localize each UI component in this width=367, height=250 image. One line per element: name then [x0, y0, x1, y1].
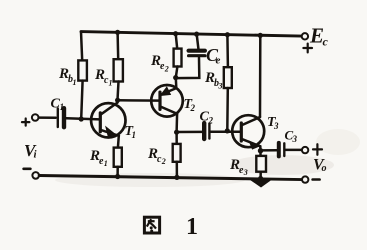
wire Re3 top lead [259, 151, 262, 156]
svg-text:2: 2 [190, 103, 196, 113]
svg-text:2: 2 [208, 116, 214, 126]
node rail junction at Rc1 [115, 30, 120, 35]
node Rb1/base junction [79, 116, 84, 121]
wire top supply rail [81, 32, 302, 36]
label T2 [184, 97, 196, 113]
wire left rail drop to Rb1 [81, 32, 82, 61]
wire T3 collector riser [259, 35, 262, 117]
wire node to C3 [261, 149, 277, 152]
node Rb3/T3 base junction [225, 128, 230, 133]
wire Re1 bottom lead [116, 167, 119, 177]
svg-text:1: 1 [73, 78, 77, 87]
wire Ce bottom L lead [176, 58, 199, 78]
resistor Rc1 [114, 59, 123, 81]
input plus sign [22, 119, 29, 126]
wire Rc1 top lead [116, 32, 119, 59]
svg-text:o: o [322, 163, 327, 174]
wire Rc2 bottom lead [176, 162, 179, 178]
node Rc2 bottom junction [174, 175, 179, 180]
wire Rc1 bottom lead [118, 82, 119, 100]
svg-text:1: 1 [104, 159, 108, 168]
transistor T2 [151, 85, 183, 117]
capacitor C2 [204, 123, 209, 139]
label C2 [200, 110, 214, 126]
label C3 [285, 128, 298, 145]
svg-text:3: 3 [243, 168, 248, 177]
node T2 collector/C2/Rc2 junction [174, 130, 179, 135]
wire Rb3 bottom lead [226, 88, 229, 131]
wire C1 to T1 base [66, 118, 100, 119]
node ground junction [258, 176, 263, 181]
terminal input plus [32, 114, 39, 121]
label Vi [24, 141, 38, 161]
ground symbol [252, 181, 269, 187]
wire input to C1 [39, 116, 56, 119]
caption figure glyph tu [144, 217, 159, 233]
resistor Rb3 [224, 67, 232, 88]
wire C3 to output [286, 149, 302, 152]
label Rb1 [58, 66, 77, 87]
label Ec [309, 24, 329, 49]
node T1 collector junction [115, 98, 120, 103]
svg-text:e: e [216, 55, 221, 67]
wire Rb3 top lead [226, 35, 229, 67]
wire bottom rail [39, 176, 302, 180]
node Re2/Ce/T2 emitter junction [173, 75, 178, 80]
label Re2 [150, 53, 169, 74]
svg-text:i: i [34, 149, 38, 161]
svg-text:1: 1 [60, 102, 65, 112]
capacitor C3 [279, 143, 285, 157]
resistor Re1 [114, 148, 122, 167]
label T3 [267, 115, 279, 131]
Ec plus sign [303, 44, 312, 53]
wire T1 collector to T2 base [118, 99, 160, 102]
node Re1 bottom junction [115, 174, 120, 179]
wire Rb1 bottom to base node [81, 81, 82, 119]
background smudges (decorative) [55, 129, 360, 187]
resistor Rc2 [173, 144, 181, 162]
label C1 [51, 97, 65, 113]
wire T1 collector to node [116, 100, 119, 102]
wire T3 emitter lead [259, 146, 262, 151]
label Rc2 [147, 146, 166, 166]
resistor Rb1 [78, 60, 87, 80]
wire T2 emitter lead up [175, 78, 178, 88]
svg-text:c: c [323, 35, 329, 49]
wire Ce top lead [197, 34, 199, 48]
resistor Re3 [256, 156, 266, 172]
label Re1 [89, 148, 108, 168]
transistor T3 [232, 115, 264, 149]
terminal input minus [32, 172, 39, 179]
transistor T1 [91, 103, 125, 138]
node rail junction at Rb3 [225, 32, 230, 37]
resistor Re2 [174, 49, 182, 67]
svg-text:3: 3 [218, 82, 223, 91]
svg-text:2: 2 [164, 65, 169, 74]
capacitor C1 [58, 108, 64, 127]
label Rb3 [204, 70, 223, 91]
label Rc1 [94, 67, 113, 88]
svg-text:1: 1 [186, 214, 198, 240]
svg-text:1: 1 [132, 130, 137, 140]
wire Rc2 top lead [175, 132, 178, 144]
label T1 [125, 124, 137, 140]
svg-text:3: 3 [292, 134, 298, 144]
svg-text:3: 3 [273, 121, 279, 131]
node rail junction at T3 collector [258, 33, 263, 38]
node rail junction at Re2 [173, 31, 178, 36]
output minus sign [313, 178, 320, 181]
svg-text:2: 2 [161, 157, 166, 166]
wire T2 collector lead down [175, 114, 178, 132]
wire Re2 top lead [176, 34, 178, 49]
label Re3 [229, 157, 248, 177]
capacitor Ce [189, 51, 205, 56]
terminal Ec supply [302, 33, 308, 39]
svg-text:1: 1 [109, 79, 113, 88]
terminal output minus [302, 176, 308, 182]
wire C2 to T3 base [211, 130, 241, 133]
wire Re3 bottom lead [259, 172, 262, 179]
label Ce [206, 45, 221, 67]
node T3 emitter junction [258, 148, 263, 153]
wire node to C2 [177, 131, 202, 134]
terminal output plus [302, 147, 308, 153]
label Vo [313, 157, 327, 175]
node rail junction at Ce [194, 31, 199, 36]
wire Re2 bottom lead [176, 67, 178, 78]
wire T1 emitter lead [117, 136, 120, 148]
input minus sign [24, 168, 31, 171]
output plus sign [313, 144, 322, 155]
